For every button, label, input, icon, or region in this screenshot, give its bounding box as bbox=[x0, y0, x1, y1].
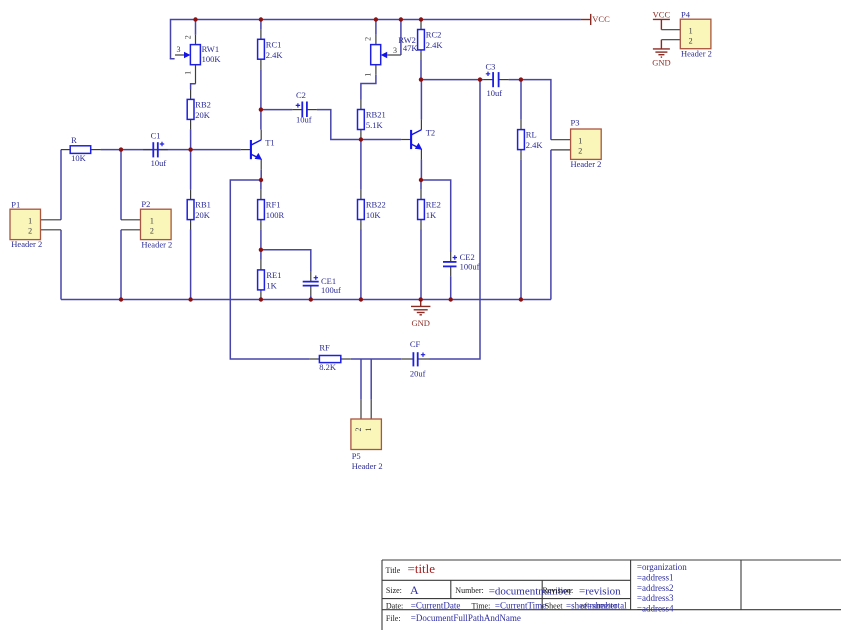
svg-text:Header 2: Header 2 bbox=[11, 239, 42, 249]
svg-text:RC2: RC2 bbox=[426, 30, 442, 40]
svg-text:RL: RL bbox=[526, 130, 537, 140]
svg-text:Date:: Date: bbox=[386, 601, 403, 610]
junction dot RE1 node bbox=[259, 248, 263, 252]
wire C2 to T2 base bbox=[317, 110, 401, 140]
wire VCC top rail bbox=[171, 20, 581, 59]
wire RC1 top from rail bbox=[260, 20, 262, 30]
capacitor C2 bbox=[292, 90, 317, 125]
svg-text:2: 2 bbox=[578, 147, 582, 156]
title block Title row bbox=[386, 561, 436, 576]
power port VCC rail bbox=[581, 14, 610, 25]
svg-text:Header 2: Header 2 bbox=[681, 49, 712, 59]
svg-text:8.2K: 8.2K bbox=[319, 362, 337, 372]
svg-text:1: 1 bbox=[28, 216, 32, 225]
wire output node line bbox=[421, 79, 483, 81]
svg-text:10K: 10K bbox=[71, 153, 87, 163]
svg-text:RE1: RE1 bbox=[266, 270, 281, 280]
svg-text:10uf: 10uf bbox=[296, 114, 312, 124]
title block frame bbox=[382, 560, 841, 630]
svg-text:Sheet: Sheet bbox=[545, 601, 564, 610]
svg-text:1K: 1K bbox=[266, 280, 277, 290]
capacitor C1 bbox=[143, 131, 168, 168]
wire RW2 wiper from rail bbox=[400, 20, 402, 56]
svg-text:47K: 47K bbox=[403, 43, 419, 53]
wire C1 node to P2 pin1 bbox=[120, 150, 122, 220]
wire RB1 bottom to rail bbox=[190, 230, 192, 300]
wire emitter node to CE2 bbox=[421, 180, 451, 252]
potentiometer RW2 bbox=[363, 35, 418, 77]
svg-text:RF: RF bbox=[319, 342, 330, 352]
power port VCC at P4 bbox=[653, 9, 671, 29]
svg-text:2: 2 bbox=[28, 226, 32, 235]
wire RF1 bottom to RE1 node bbox=[260, 230, 262, 250]
junction dots bottom rail bbox=[119, 297, 523, 301]
junction dot T1 emitter node bbox=[259, 178, 263, 182]
wire P5 pin1 drop bbox=[370, 359, 372, 400]
resistor RB21 bbox=[358, 100, 386, 140]
wire emitter node to RF1 bbox=[260, 180, 262, 190]
header P2 bbox=[121, 199, 172, 249]
wire RE2 bottom to rail bbox=[420, 230, 422, 300]
wire RB21 bottom node to RB22 bbox=[360, 140, 362, 190]
svg-text:1: 1 bbox=[364, 428, 373, 432]
wire T2 collector to output node bbox=[420, 80, 422, 120]
wire RW1 pin1 to RB2 bbox=[191, 84, 196, 90]
svg-text:2: 2 bbox=[354, 428, 363, 432]
svg-text:2: 2 bbox=[150, 226, 154, 235]
svg-text:100uf: 100uf bbox=[460, 262, 480, 272]
wire RF right to CF left bbox=[351, 358, 401, 360]
svg-text:RB22: RB22 bbox=[366, 200, 386, 210]
svg-text:2: 2 bbox=[689, 36, 693, 45]
wire P3 pin2 down to rail bbox=[550, 150, 552, 300]
svg-text:10K: 10K bbox=[366, 210, 382, 220]
svg-text:=CurrentDate: =CurrentDate bbox=[411, 600, 461, 610]
svg-text:100R: 100R bbox=[266, 210, 285, 220]
svg-text:RB1: RB1 bbox=[195, 200, 211, 210]
svg-text:Title: Title bbox=[386, 566, 401, 575]
title block organization cell bbox=[637, 562, 687, 613]
svg-text:RE2: RE2 bbox=[426, 200, 441, 210]
ground GND main bbox=[411, 300, 430, 329]
wire C3 right to P3 pin1 bbox=[509, 80, 551, 140]
title block File row bbox=[386, 613, 521, 623]
title block Date row bbox=[386, 600, 627, 610]
wire RE1 top bbox=[260, 250, 262, 260]
resistor RF1 bbox=[258, 190, 285, 230]
svg-text:=sheettotal: =sheettotal bbox=[587, 600, 627, 610]
resistor RB2 bbox=[187, 90, 211, 130]
svg-text:VCC: VCC bbox=[592, 14, 610, 24]
svg-text:RB21: RB21 bbox=[366, 110, 386, 120]
junction dots input line bbox=[119, 147, 193, 151]
svg-text:Size:: Size: bbox=[386, 586, 402, 595]
svg-text:1: 1 bbox=[150, 216, 154, 225]
svg-text:RB2: RB2 bbox=[195, 99, 211, 109]
svg-text:T2: T2 bbox=[426, 128, 435, 138]
wire P5 pin2 drop bbox=[360, 359, 362, 400]
svg-text:RF1: RF1 bbox=[266, 200, 281, 210]
svg-text:C2: C2 bbox=[296, 90, 306, 100]
svg-text:1K: 1K bbox=[426, 210, 437, 220]
capacitor CF bbox=[401, 339, 429, 378]
header P3 bbox=[551, 118, 602, 169]
wire C2 tap from collector node bbox=[261, 109, 292, 111]
svg-text:A: A bbox=[410, 583, 419, 597]
wire RB22 bottom to rail bbox=[360, 230, 362, 300]
wire RW1 wiper stub bbox=[171, 57, 175, 60]
svg-text:20uf: 20uf bbox=[410, 369, 426, 379]
svg-text:Header 2: Header 2 bbox=[571, 159, 602, 169]
wire RW2 pin2 from rail bbox=[375, 20, 377, 35]
header P4 bbox=[661, 10, 712, 59]
resistor RE2 bbox=[418, 190, 441, 230]
svg-text:P3: P3 bbox=[571, 118, 580, 128]
wire RC2 bottom to output node bbox=[420, 60, 422, 80]
svg-text:P4: P4 bbox=[681, 10, 691, 20]
wire RL branch bbox=[520, 80, 522, 120]
svg-text:3: 3 bbox=[177, 45, 181, 54]
capacitor C3 bbox=[483, 62, 509, 98]
wire R left to P1 pin1 bbox=[60, 150, 62, 220]
svg-text:1: 1 bbox=[578, 136, 582, 145]
svg-text:2.4K: 2.4K bbox=[526, 140, 544, 150]
wire input line bbox=[101, 149, 241, 151]
svg-text:Header 2: Header 2 bbox=[141, 239, 172, 249]
resistor RC1 bbox=[258, 29, 284, 69]
resistor RB22 bbox=[358, 190, 386, 230]
svg-text:P5: P5 bbox=[352, 451, 361, 461]
svg-text:2.4K: 2.4K bbox=[266, 50, 284, 60]
svg-text:=address4: =address4 bbox=[637, 604, 674, 614]
wire RL bottom to rail bbox=[520, 160, 522, 300]
svg-text:T1: T1 bbox=[265, 138, 274, 148]
svg-text:GND: GND bbox=[652, 58, 670, 68]
capacitor CE2 bbox=[443, 252, 480, 276]
svg-text:2.4K: 2.4K bbox=[426, 40, 444, 50]
svg-text:P1: P1 bbox=[11, 199, 20, 209]
wire RC1 bottom to T1 collector bbox=[260, 69, 262, 130]
resistor R bbox=[61, 135, 101, 163]
svg-text:=CurrentTime: =CurrentTime bbox=[495, 600, 546, 610]
svg-text:2: 2 bbox=[183, 35, 192, 39]
svg-text:20K: 20K bbox=[195, 210, 211, 220]
svg-text:100K: 100K bbox=[202, 54, 222, 64]
wire feedback from T1 emitter down to RF line bbox=[230, 180, 309, 359]
capacitor CE1 bbox=[303, 272, 341, 296]
svg-text:Number:: Number: bbox=[455, 586, 483, 595]
svg-text:Header 2: Header 2 bbox=[352, 461, 383, 471]
resistor RL bbox=[518, 120, 544, 160]
svg-text:=address1: =address1 bbox=[637, 573, 674, 583]
junction dot T2 base node bbox=[359, 137, 363, 141]
wire RW1 pin2 from rail bbox=[195, 20, 197, 35]
svg-text:=organization: =organization bbox=[637, 562, 687, 572]
wire P2 pin2 to bottom rail bbox=[120, 230, 122, 300]
header P1 bbox=[10, 199, 61, 248]
junction dots output node bbox=[419, 77, 523, 81]
svg-text:1: 1 bbox=[689, 26, 693, 35]
svg-text:VCC: VCC bbox=[653, 9, 671, 19]
resistor RE1 bbox=[258, 260, 282, 300]
potentiometer RW1 bbox=[175, 35, 221, 84]
svg-text:Revision:: Revision: bbox=[543, 586, 574, 595]
title block Size row bbox=[386, 583, 621, 598]
resistor RF bbox=[309, 342, 350, 372]
svg-text:=DocumentFullPathAndName: =DocumentFullPathAndName bbox=[411, 613, 521, 623]
wire T2 emitter to node bbox=[420, 160, 422, 180]
resistor RC2 bbox=[418, 20, 444, 61]
svg-text:100uf: 100uf bbox=[321, 285, 341, 295]
svg-text:5.1K: 5.1K bbox=[366, 120, 384, 130]
wire CF right up to output node bbox=[429, 80, 480, 359]
wire RE2 top bbox=[420, 180, 422, 190]
svg-text:=address3: =address3 bbox=[637, 593, 674, 603]
svg-text:1: 1 bbox=[363, 73, 372, 77]
wire P1 pin2 to bottom rail bbox=[60, 230, 62, 300]
svg-text:GND: GND bbox=[411, 318, 429, 328]
ground GND at P4 bbox=[652, 40, 670, 68]
svg-text:=title: =title bbox=[408, 561, 436, 576]
svg-text:10uf: 10uf bbox=[151, 158, 167, 168]
wire RE1 node to CE1 bbox=[261, 250, 311, 272]
svg-text:=address2: =address2 bbox=[637, 583, 674, 593]
transistor T1 bbox=[241, 130, 275, 170]
svg-text:C1: C1 bbox=[151, 131, 161, 141]
svg-text:CE2: CE2 bbox=[460, 252, 475, 262]
svg-text:1: 1 bbox=[183, 71, 192, 75]
svg-text:CF: CF bbox=[410, 339, 421, 349]
svg-text:File:: File: bbox=[386, 614, 401, 623]
svg-text:Time:: Time: bbox=[472, 601, 491, 610]
wire CE2 bottom to rail bbox=[450, 276, 452, 299]
svg-text:R: R bbox=[71, 135, 77, 145]
wire RW2 pin1 to RB21 bbox=[361, 75, 376, 100]
wire bottom ground rail bbox=[61, 299, 551, 301]
junction dot T1 collector node bbox=[259, 107, 263, 111]
resistor RB1 bbox=[187, 190, 211, 230]
svg-text:RW1: RW1 bbox=[202, 44, 219, 54]
wire T1 emitter to node bbox=[260, 170, 262, 180]
svg-text:2: 2 bbox=[364, 37, 373, 41]
header P5 bbox=[351, 400, 383, 471]
wire RB2 to RB1 column bbox=[190, 129, 192, 189]
wire CE1 bottom to rail bbox=[310, 295, 312, 299]
svg-text:20K: 20K bbox=[195, 110, 211, 120]
svg-text:RC1: RC1 bbox=[266, 39, 282, 49]
junction dot T2 emitter node bbox=[419, 178, 423, 182]
junction dots top rail bbox=[193, 17, 423, 21]
svg-text:C3: C3 bbox=[486, 62, 496, 72]
transistor T2 bbox=[401, 120, 435, 160]
svg-text:=revision: =revision bbox=[579, 586, 621, 598]
svg-text:3: 3 bbox=[393, 46, 397, 55]
svg-text:P2: P2 bbox=[141, 199, 150, 209]
svg-text:10uf: 10uf bbox=[487, 88, 503, 98]
